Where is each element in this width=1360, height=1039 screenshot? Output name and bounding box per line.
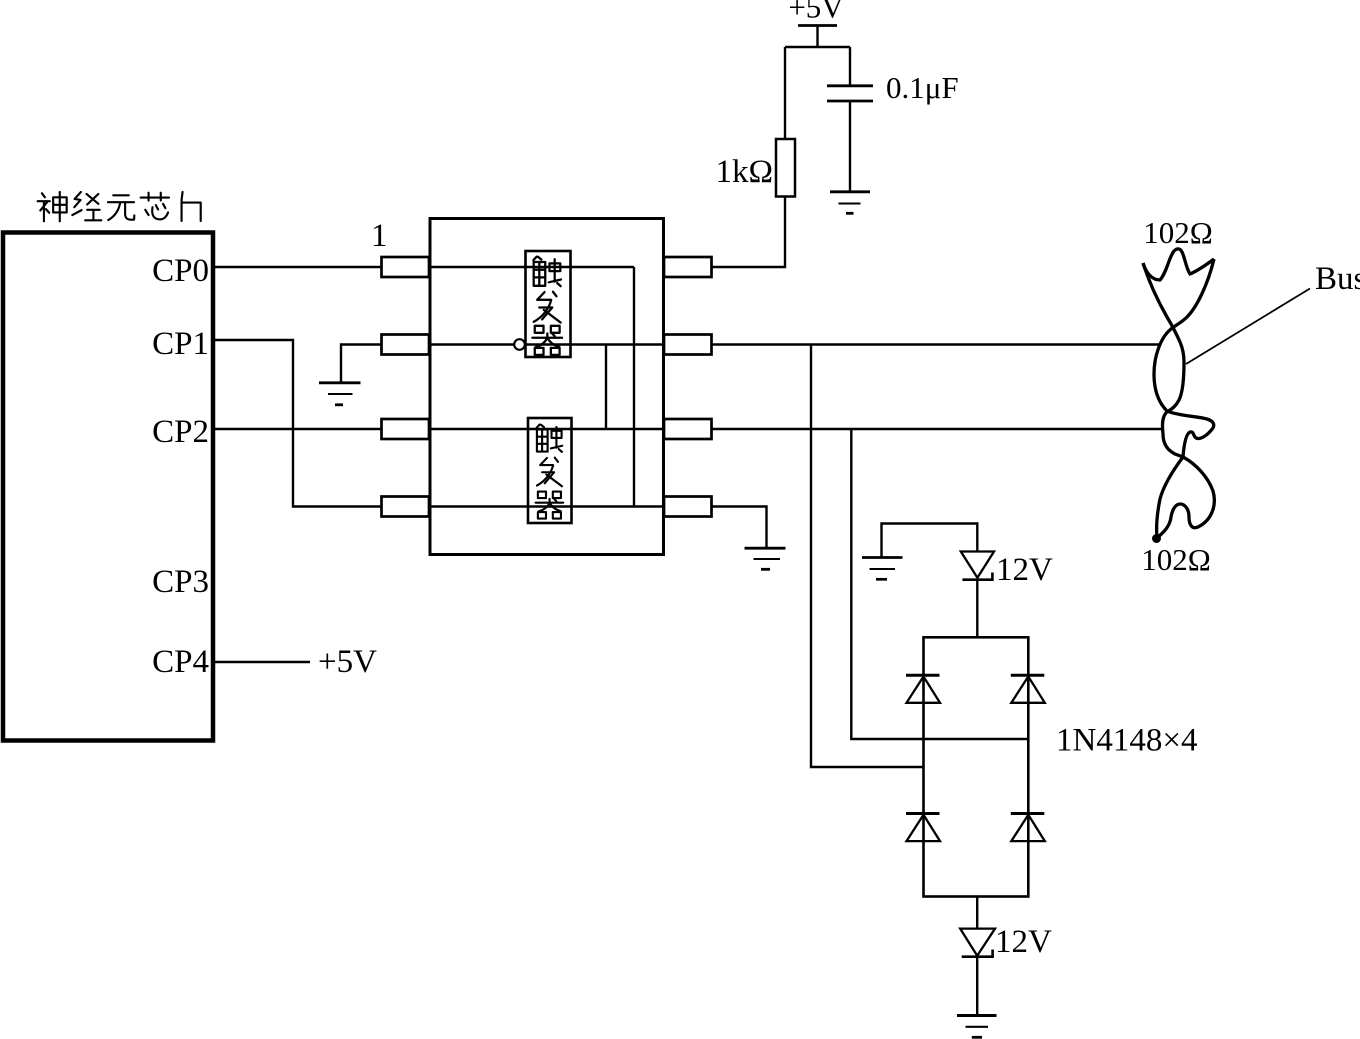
diode bridge frame	[924, 637, 1029, 896]
svg-text:0.1μF: 0.1μF	[886, 70, 959, 105]
twisted pair cable crown	[1143, 249, 1214, 280]
diode D4	[1011, 814, 1045, 842]
wire CP4 to +5V	[214, 661, 310, 663]
svg-text:CP0: CP0	[152, 253, 209, 289]
ground G1	[830, 192, 870, 214]
diode D1	[906, 675, 940, 703]
wire bus line 1	[712, 343, 1161, 345]
trigger block B box	[528, 418, 572, 523]
svg-text:CP3: CP3	[152, 564, 209, 600]
twisted pair strand A	[1143, 263, 1214, 537]
pin 2 left	[382, 335, 430, 355]
svg-text:Bus: Bus	[1315, 261, 1360, 297]
capacitor C1	[849, 47, 851, 85]
wire bridge to zener D6	[976, 897, 978, 929]
svg-text:CP4: CP4	[152, 644, 209, 680]
wire row4 inside	[430, 505, 664, 507]
ground G4	[957, 1016, 997, 1038]
trigger block B label 触发器	[536, 425, 564, 519]
trigger block A label 触发器	[532, 257, 562, 355]
svg-text:1: 1	[371, 218, 388, 254]
zener diode D6	[960, 929, 995, 956]
wire pin4R to ground	[712, 507, 767, 548]
wire row2 inside	[430, 343, 664, 345]
diode D2	[1011, 675, 1045, 703]
svg-text:12V: 12V	[996, 552, 1053, 588]
twisted pair strand B	[1154, 259, 1214, 537]
wire resistor to +5V rail	[785, 47, 850, 139]
svg-text:CP1: CP1	[152, 326, 209, 362]
pin 4 left	[382, 497, 430, 517]
pointer line Bus	[1186, 289, 1310, 365]
wire ground G3 to zener D5	[882, 524, 978, 558]
pin 3 right	[664, 419, 712, 439]
svg-text:1kΩ: 1kΩ	[715, 154, 773, 190]
+5V power symbol	[798, 24, 837, 27]
wire row1 inside	[430, 266, 634, 268]
ground G3	[862, 558, 903, 580]
optocoupler box U2	[430, 219, 664, 555]
wire pin1R to resistor	[712, 197, 786, 268]
wire vertical A to bridge left	[811, 345, 924, 768]
pin 1 right	[664, 257, 712, 277]
wire zener D5 to bridge	[976, 580, 978, 638]
trigger block A box	[526, 251, 571, 357]
svg-text:+5V: +5V	[788, 0, 844, 25]
diode D3	[906, 814, 940, 842]
resistor R1	[776, 139, 795, 197]
zener diode D5	[961, 552, 994, 578]
svg-text:CP2: CP2	[152, 414, 209, 450]
wire vertical x634	[633, 267, 635, 507]
wire row3 inside	[430, 428, 664, 430]
svg-text:102Ω: 102Ω	[1143, 215, 1213, 250]
inverter bubble	[514, 339, 525, 350]
ground G2	[745, 548, 786, 569]
pin 2 right	[664, 335, 712, 355]
wire pin2 to ground	[341, 345, 382, 383]
wire CP1 to pin4	[214, 340, 382, 507]
svg-text:102Ω: 102Ω	[1141, 542, 1211, 577]
wire bus line 2	[712, 428, 1164, 430]
wire vertical x606	[605, 345, 607, 430]
pin 4 right	[664, 497, 712, 517]
chip U1 神经元芯片 neuron chip body	[3, 233, 213, 741]
svg-text:1N4148×4: 1N4148×4	[1056, 723, 1197, 759]
svg-text:+5V: +5V	[318, 644, 377, 680]
pin 1 left	[382, 257, 430, 277]
wire zener D6 to ground	[976, 957, 978, 1015]
junction dot	[1152, 534, 1161, 543]
wire vertical B to bridge right	[851, 429, 1028, 739]
svg-text:12V: 12V	[995, 924, 1052, 960]
ground G0	[319, 383, 361, 405]
chip label 神经元芯片	[38, 192, 201, 221]
wire CP2 to pin3	[214, 428, 382, 430]
wire CP0 to pin1	[214, 266, 382, 268]
pin 3 left	[382, 419, 430, 439]
